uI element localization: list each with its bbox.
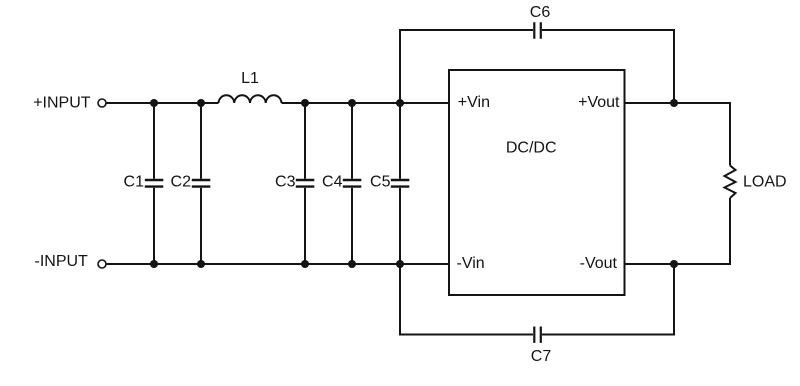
junction dot bottom C2 <box>197 260 205 268</box>
junction dot bottom C3 <box>301 260 309 268</box>
wire C7 bottom right <box>542 264 674 335</box>
junction dot bottom C1 <box>150 260 158 268</box>
svg-text:C4: C4 <box>322 174 343 191</box>
svg-text:+INPUT: +INPUT <box>33 94 91 111</box>
junction dot -Vout/C7 <box>670 260 678 268</box>
capacitor C2 <box>192 103 211 264</box>
DC/DC converter box U1 <box>449 70 625 295</box>
junction dot top C3 <box>301 99 309 107</box>
capacitor C5 <box>391 103 410 264</box>
wire top rail left <box>106 102 218 104</box>
svg-text:C3: C3 <box>275 174 296 191</box>
junction dot top C4 <box>348 99 356 107</box>
svg-text:-Vout: -Vout <box>580 255 618 272</box>
svg-text:-INPUT: -INPUT <box>35 253 89 270</box>
wire top rail right of L1 <box>282 102 450 104</box>
capacitor C1 <box>145 103 164 264</box>
capacitor C7 <box>534 327 541 343</box>
terminal +INPUT <box>98 99 106 107</box>
junction dot top C5/C6 <box>396 99 404 107</box>
svg-text:C5: C5 <box>370 174 391 191</box>
capacitor C4 <box>343 103 362 264</box>
wire C6 left riser <box>400 30 533 103</box>
junction dot top C1 <box>150 99 158 107</box>
svg-text:+Vout: +Vout <box>578 94 620 111</box>
terminal -INPUT <box>98 260 106 268</box>
svg-text:L1: L1 <box>241 70 259 87</box>
junction dot +Vout/C6 <box>670 99 678 107</box>
inductor L1 <box>219 95 282 103</box>
capacitor C3 <box>296 103 315 264</box>
junction dot bottom C4 <box>348 260 356 268</box>
svg-text:C1: C1 <box>124 174 145 191</box>
wire bottom rail <box>106 263 449 265</box>
wire C6 top right <box>542 30 674 103</box>
svg-text:+Vin: +Vin <box>458 94 490 111</box>
capacitor C6 <box>534 22 541 38</box>
svg-text:C7: C7 <box>531 348 552 365</box>
wire +Vout to load <box>625 103 731 166</box>
wire C7 left riser <box>400 264 533 335</box>
svg-text:-Vin: -Vin <box>457 255 485 272</box>
wire -Vout to load <box>625 198 731 264</box>
svg-text:LOAD: LOAD <box>743 174 787 191</box>
svg-text:DC/DC: DC/DC <box>506 139 557 156</box>
resistor LOAD <box>725 166 736 199</box>
svg-text:C2: C2 <box>171 174 192 191</box>
junction dot top C2 <box>197 99 205 107</box>
svg-text:C6: C6 <box>530 4 551 21</box>
junction dot bottom C5/C7 <box>396 260 404 268</box>
